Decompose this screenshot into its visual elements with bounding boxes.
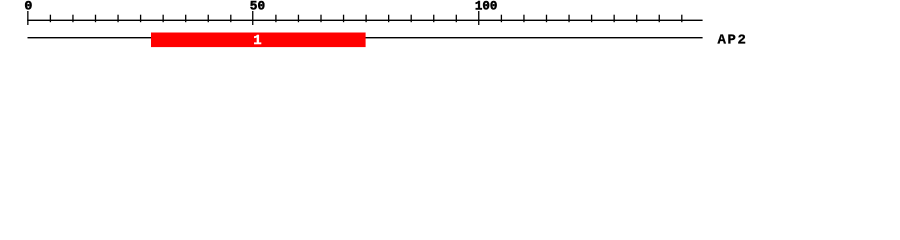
svg-text:1: 1	[253, 33, 261, 49]
ruler minor ticks 105-145	[501, 15, 683, 23]
protein backbone line	[28, 37, 703, 38]
ruler major tick 0	[27, 11, 28, 25]
background	[0, 0, 900, 58]
svg-text:0: 0	[24, 0, 32, 14]
svg-text:AP2: AP2	[718, 32, 748, 48]
ruler minor ticks 55-95	[275, 15, 457, 23]
ruler major tick 50	[252, 11, 253, 25]
ruler axis line	[27, 20, 702, 21]
ruler major tick 100	[478, 11, 479, 25]
domain box (AP2 domain, red)	[151, 33, 366, 48]
svg-text:100: 100	[475, 0, 498, 14]
svg-text:50: 50	[250, 0, 265, 14]
ruler minor ticks 5-45	[50, 15, 232, 23]
